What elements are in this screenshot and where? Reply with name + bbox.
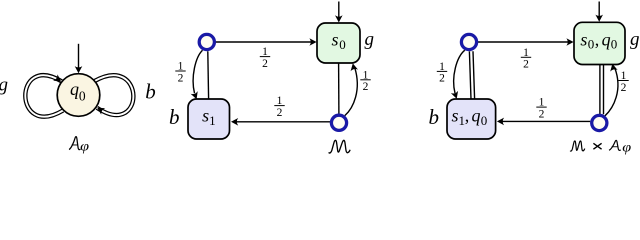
start arrow into q0 [75,44,83,74]
svg-text:0: 0 [588,37,595,52]
svg-text:b: b [145,79,156,103]
svg-text:g: g [630,29,640,50]
wire: s1,q0 -> chooser3 (double/accepting) [471,51,473,99]
state s1,q0 [447,99,496,139]
svg-text:s: s [580,29,587,49]
wire: s0 -> chooser2 [338,63,340,114]
svg-text:q: q [602,29,611,49]
svg-text:s: s [331,29,338,49]
wire: s0,q0 -> chooser4 (double/accepting) [599,65,604,115]
svg-text:,: , [465,106,470,126]
svg-text:2: 2 [178,72,184,84]
edge: chooser1 -> s0, prob 1/2 (top arrow) [216,38,317,46]
svg-text:0: 0 [611,37,618,52]
state q0 [57,74,100,117]
svg-text:1: 1 [209,113,216,128]
chooser node 3 (blue circle top-left, product) [461,34,476,49]
svg-text:s: s [451,106,458,126]
start arrow into s0 [335,2,343,23]
state s0,q0 [574,22,625,64]
svg-text:2: 2 [439,73,445,85]
svg-text:0: 0 [339,37,346,52]
label 1/2 (bottom arrow) [274,95,284,119]
self-loop g (double line, left of q0) [25,74,63,116]
chooser node 2 (blue circle bottom-right) [331,115,346,130]
wire: s1 -> chooser1 [207,51,210,99]
svg-text:s: s [202,106,209,126]
svg-text:2: 2 [363,81,369,93]
edge: chooser3 -> s1,q0, prob 1/2 (curved) [451,50,465,100]
svg-text:2: 2 [262,58,268,70]
edge: chooser1 -> s1, prob 1/2 (curved) [191,50,203,100]
svg-text:b: b [169,105,180,129]
edge: chooser3 -> s0,q0, prob 1/2 (top arrow) [478,38,574,46]
label 1/2 (top arrow) [260,46,270,70]
svg-text:q: q [472,106,481,126]
svg-text:,: , [595,29,600,49]
svg-text:2: 2 [539,108,545,120]
label 1/2 (right curve) [360,69,370,93]
svg-text:2: 2 [621,82,627,94]
label M x A_phi [570,140,631,155]
svg-text:2: 2 [277,107,283,119]
label 1/2 (left curve) [175,61,185,85]
edge: chooser2 -> s0, prob 1/2 (curved) [345,63,358,116]
svg-text:b: b [429,105,440,129]
svg-text:φ: φ [622,140,631,155]
edge: chooser4 -> s0,q0, prob 1/2 (curved) [605,63,618,116]
self-loop b (double line, right of q0) [94,75,133,115]
svg-text:0: 0 [79,89,86,104]
svg-text:g: g [0,75,8,96]
state s0 [317,23,360,63]
edge: chooser4 -> s1,q0, prob 1/2 (bottom arrow) [497,118,590,126]
label A_phi [69,137,89,155]
label 1/2 (right curve, product) [618,70,628,94]
svg-text:2: 2 [523,59,529,71]
svg-text:0: 0 [481,113,488,128]
state s1 [188,99,230,139]
edge: chooser2 -> s1, prob 1/2 (bottom arrow) [231,118,330,126]
svg-text:φ: φ [80,139,89,154]
svg-text:g: g [364,29,374,50]
label 1/2 (bottom arrow, product) [536,97,546,121]
chooser node 4 (blue circle bottom-right, product) [592,115,607,130]
label 1/2 (left curve, product) [437,61,447,85]
chooser node 1 (blue circle top-left) [199,34,214,49]
start arrow into s0,q0 [595,2,603,22]
label 1/2 (top arrow, product) [521,47,531,71]
svg-text:q: q [70,79,79,99]
label M [329,140,351,153]
